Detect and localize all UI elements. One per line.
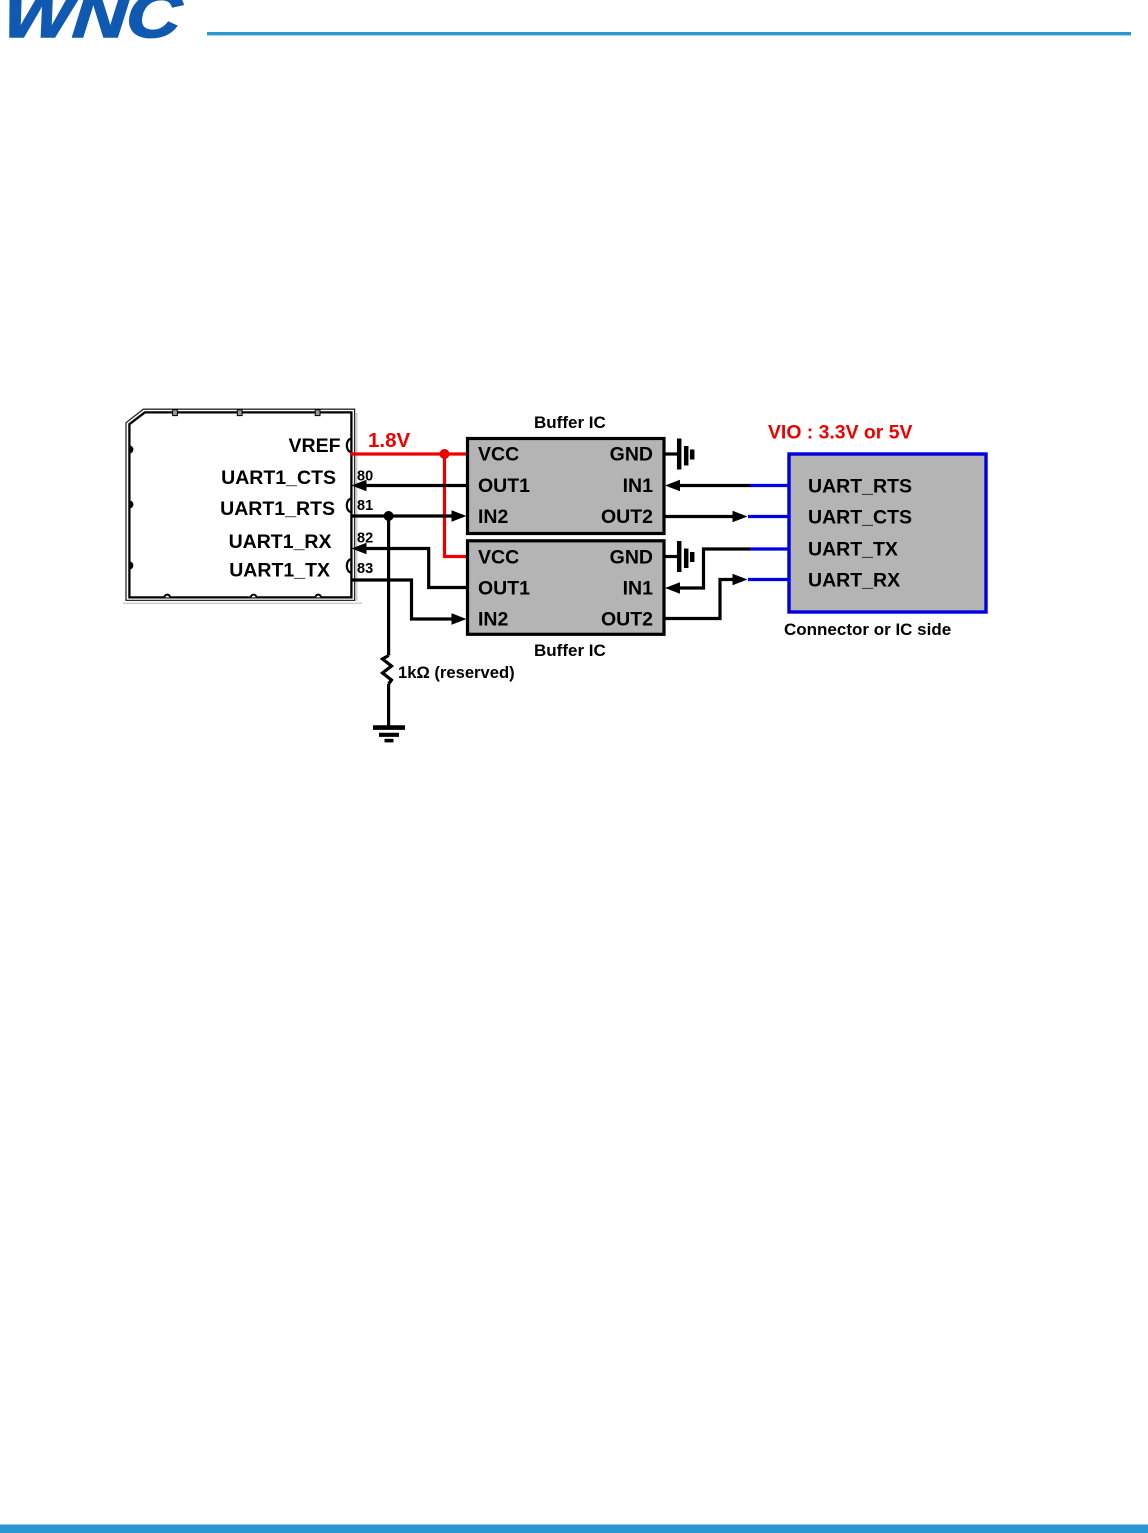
svg-text:UART1_CTS: UART1_CTS	[221, 467, 336, 489]
svg-text:1.8V: 1.8V	[368, 429, 410, 452]
svg-text:UART1_RX: UART1_RX	[229, 531, 332, 553]
svg-text:VREF: VREF	[288, 435, 340, 457]
svg-text:WNC: WNC	[0, 0, 185, 50]
svg-text:81: 81	[357, 498, 373, 514]
svg-text:UART1_RTS: UART1_RTS	[220, 498, 335, 520]
svg-text:IN1: IN1	[623, 475, 654, 497]
svg-text:IN1: IN1	[623, 578, 654, 600]
svg-text:VCC: VCC	[478, 547, 519, 569]
svg-text:UART_RX: UART_RX	[808, 570, 900, 592]
svg-text:VIO : 3.3V or 5V: VIO : 3.3V or 5V	[768, 422, 912, 444]
svg-text:Buffer IC: Buffer IC	[534, 413, 606, 432]
svg-text:OUT1: OUT1	[478, 578, 530, 600]
svg-text:GND: GND	[610, 444, 653, 466]
svg-text:VCC: VCC	[478, 444, 519, 466]
svg-text:OUT2: OUT2	[601, 609, 653, 631]
svg-text:OUT1: OUT1	[478, 475, 530, 497]
svg-text:1kΩ (reserved): 1kΩ (reserved)	[398, 663, 515, 682]
svg-text:83: 83	[357, 561, 373, 577]
svg-text:UART_CTS: UART_CTS	[808, 507, 912, 529]
svg-text:UART1_TX: UART1_TX	[229, 560, 330, 582]
svg-text:IN2: IN2	[478, 506, 509, 528]
svg-text:Connector or IC side: Connector or IC side	[784, 620, 951, 639]
svg-text:IN2: IN2	[478, 609, 509, 631]
svg-text:UART_TX: UART_TX	[808, 539, 898, 561]
svg-text:Buffer IC: Buffer IC	[534, 641, 606, 660]
svg-text:GND: GND	[610, 547, 653, 569]
svg-text:OUT2: OUT2	[601, 506, 653, 528]
svg-text:UART_RTS: UART_RTS	[808, 476, 912, 498]
